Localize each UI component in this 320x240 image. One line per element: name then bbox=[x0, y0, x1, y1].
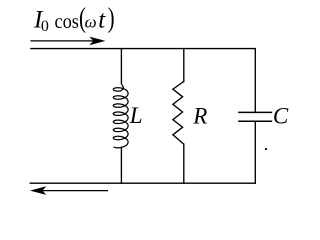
right vertical top (to capacitor) bbox=[254, 49, 256, 113]
svg-text:L: L bbox=[129, 103, 143, 128]
svg-text:): ) bbox=[108, 2, 115, 34]
capacitor C plates bbox=[239, 111, 272, 113]
right vertical bottom bbox=[254, 121, 256, 183]
top wire bbox=[31, 48, 256, 50]
bottom return arrow bbox=[30, 186, 108, 195]
R branch bottom lead bbox=[183, 144, 185, 183]
svg-text:t: t bbox=[98, 6, 106, 33]
source label I0 cos(omega t) bbox=[33, 2, 115, 35]
svg-text:R: R bbox=[192, 103, 207, 128]
stray dot bbox=[265, 148, 267, 150]
R branch top lead bbox=[183, 49, 185, 82]
bottom wire bbox=[30, 182, 255, 184]
L branch top lead bbox=[120, 49, 122, 84]
svg-text:ω: ω bbox=[85, 12, 97, 31]
svg-text:cos: cos bbox=[55, 11, 80, 33]
inductor coil L bbox=[113, 83, 128, 148]
svg-text:C: C bbox=[273, 104, 289, 129]
L branch bottom lead bbox=[120, 147, 122, 183]
top current arrow bbox=[30, 37, 105, 46]
svg-text:0: 0 bbox=[41, 18, 49, 35]
resistor zigzag R bbox=[173, 82, 184, 145]
